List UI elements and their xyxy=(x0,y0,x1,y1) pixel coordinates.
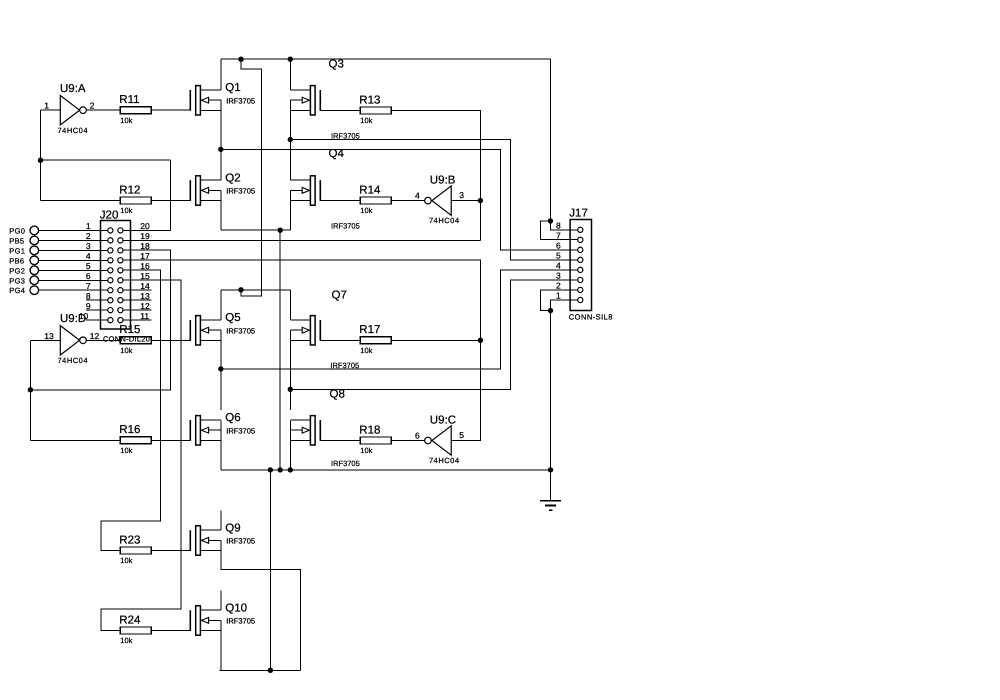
svg-text:3: 3 xyxy=(459,190,464,200)
svg-text:74HC04: 74HC04 xyxy=(429,216,460,225)
svg-text:10k: 10k xyxy=(360,446,372,455)
svg-text:14: 14 xyxy=(140,281,150,291)
svg-text:R23: R23 xyxy=(119,534,140,546)
svg-text:10k: 10k xyxy=(360,206,372,215)
svg-text:Q6: Q6 xyxy=(225,412,240,424)
svg-text:PG1: PG1 xyxy=(9,246,25,255)
svg-text:2: 2 xyxy=(90,101,95,111)
svg-text:1: 1 xyxy=(556,291,561,301)
svg-text:Q2: Q2 xyxy=(225,172,240,184)
svg-text:18: 18 xyxy=(140,241,150,251)
svg-text:R24: R24 xyxy=(119,614,141,626)
svg-text:U9:B: U9:B xyxy=(430,175,456,187)
svg-text:12: 12 xyxy=(90,331,100,341)
svg-text:CONN-SIL8: CONN-SIL8 xyxy=(569,312,613,321)
svg-text:R18: R18 xyxy=(359,424,380,436)
svg-text:13: 13 xyxy=(140,291,150,301)
svg-text:8: 8 xyxy=(556,221,561,231)
svg-text:1: 1 xyxy=(44,101,49,111)
svg-text:Q7: Q7 xyxy=(332,289,347,301)
svg-text:PG4: PG4 xyxy=(9,286,25,295)
svg-text:4: 4 xyxy=(86,251,91,261)
svg-text:IRF3705: IRF3705 xyxy=(226,617,255,626)
svg-text:PB6: PB6 xyxy=(9,256,24,265)
svg-text:6: 6 xyxy=(556,241,561,251)
svg-text:Q8: Q8 xyxy=(330,388,345,400)
svg-text:7: 7 xyxy=(556,231,561,241)
svg-text:8: 8 xyxy=(86,291,91,301)
svg-text:U9:A: U9:A xyxy=(60,83,86,95)
svg-text:19: 19 xyxy=(140,231,150,241)
svg-text:CONN-DIL20: CONN-DIL20 xyxy=(103,334,150,343)
svg-text:Q3: Q3 xyxy=(329,59,344,71)
svg-text:10k: 10k xyxy=(360,346,372,355)
svg-text:7: 7 xyxy=(86,281,91,291)
svg-text:3: 3 xyxy=(86,241,91,251)
svg-text:4: 4 xyxy=(415,190,420,200)
svg-text:IRF3705: IRF3705 xyxy=(331,222,360,231)
svg-text:20: 20 xyxy=(140,221,150,231)
svg-text:9: 9 xyxy=(86,301,91,311)
svg-text:PG0: PG0 xyxy=(9,226,25,235)
svg-text:6: 6 xyxy=(86,271,91,281)
svg-text:10k: 10k xyxy=(120,556,132,565)
svg-text:1: 1 xyxy=(86,221,91,231)
svg-text:12: 12 xyxy=(140,301,150,311)
svg-text:2: 2 xyxy=(556,281,561,291)
svg-text:Q1: Q1 xyxy=(225,82,240,94)
svg-text:11: 11 xyxy=(140,311,149,321)
svg-text:PB5: PB5 xyxy=(9,236,24,245)
svg-text:2: 2 xyxy=(86,231,91,241)
svg-text:13: 13 xyxy=(44,331,54,341)
svg-text:IRF3705: IRF3705 xyxy=(226,537,255,546)
svg-text:IRF3705: IRF3705 xyxy=(226,96,255,105)
svg-text:16: 16 xyxy=(140,261,150,271)
svg-text:IRF3705: IRF3705 xyxy=(331,132,360,141)
svg-text:10k: 10k xyxy=(120,636,132,645)
svg-text:3: 3 xyxy=(556,271,561,281)
svg-text:4: 4 xyxy=(556,261,561,271)
svg-text:IRF3705: IRF3705 xyxy=(330,361,359,370)
svg-text:74HC04: 74HC04 xyxy=(58,356,89,365)
svg-text:IRF3705: IRF3705 xyxy=(331,459,360,468)
svg-text:5: 5 xyxy=(556,251,561,261)
svg-text:Q10: Q10 xyxy=(225,602,247,614)
svg-text:IRF3705: IRF3705 xyxy=(226,187,255,196)
svg-text:6: 6 xyxy=(415,430,420,440)
svg-text:Q4: Q4 xyxy=(329,148,345,160)
svg-text:R16: R16 xyxy=(119,424,140,436)
svg-text:IRF3705: IRF3705 xyxy=(226,426,255,435)
svg-text:J20: J20 xyxy=(100,209,119,221)
svg-text:15: 15 xyxy=(140,271,150,281)
svg-text:10k: 10k xyxy=(120,206,132,215)
svg-text:PG3: PG3 xyxy=(9,276,25,285)
svg-text:Q9: Q9 xyxy=(225,522,240,534)
svg-text:10k: 10k xyxy=(120,446,132,455)
svg-text:IRF3705: IRF3705 xyxy=(226,326,255,335)
svg-text:5: 5 xyxy=(86,261,91,271)
svg-text:R12: R12 xyxy=(119,185,140,197)
svg-text:J17: J17 xyxy=(569,208,588,220)
svg-text:17: 17 xyxy=(140,251,150,261)
svg-text:5: 5 xyxy=(459,430,464,440)
svg-text:10k: 10k xyxy=(360,116,372,125)
svg-text:R17: R17 xyxy=(359,324,380,336)
svg-text:10k: 10k xyxy=(120,346,132,355)
svg-text:Q5: Q5 xyxy=(225,312,240,324)
svg-text:R11: R11 xyxy=(119,94,139,106)
svg-text:R14: R14 xyxy=(359,185,381,197)
svg-text:R13: R13 xyxy=(359,94,380,106)
svg-text:10: 10 xyxy=(79,311,89,321)
svg-text:74HC04: 74HC04 xyxy=(429,456,460,465)
svg-text:74HC04: 74HC04 xyxy=(58,126,89,135)
svg-text:PG2: PG2 xyxy=(9,266,25,275)
svg-text:10k: 10k xyxy=(120,116,132,125)
svg-text:U9:C: U9:C xyxy=(430,415,456,427)
